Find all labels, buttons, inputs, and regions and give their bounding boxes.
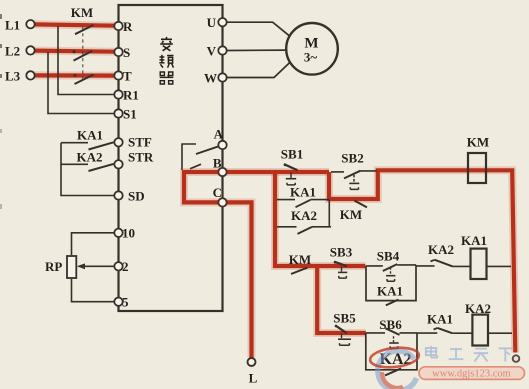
svg-text:KA1: KA1 bbox=[77, 128, 103, 143]
terminal S1 bbox=[114, 107, 136, 122]
wiper arrow RP to 2 bbox=[77, 263, 115, 269]
svg-text:SB2: SB2 bbox=[341, 151, 363, 166]
relay contact KA2 (row1 parallel) bbox=[277, 208, 331, 234]
svg-text:A: A bbox=[214, 127, 224, 142]
wire KA2 coil to right rail bbox=[488, 332, 512, 334]
relay contact KA2 (NC interlock row2) bbox=[416, 242, 471, 266]
pushbutton SB6 (NO) with latch box bbox=[366, 317, 417, 370]
svg-text:KM: KM bbox=[340, 207, 362, 222]
svg-text:L2: L2 bbox=[5, 44, 20, 59]
wire branch right rail (black) bbox=[328, 200, 330, 227]
contactor contact KM (self latch row1) bbox=[340, 201, 367, 222]
relay contact KA2 to STR bbox=[61, 150, 114, 172]
svg-text:SB3: SB3 bbox=[330, 245, 353, 260]
svg-text:10: 10 bbox=[122, 226, 135, 241]
terminal 2 bbox=[114, 259, 128, 274]
terminal L2 bbox=[5, 44, 35, 59]
svg-text:KM: KM bbox=[71, 5, 93, 20]
pushbutton SB5 (NC) bbox=[333, 311, 356, 346]
terminal 5 bbox=[114, 295, 129, 310]
terminal SD bbox=[114, 189, 144, 204]
svg-text:KA1: KA1 bbox=[290, 184, 316, 199]
pushbutton SB3 (NC) bbox=[330, 245, 353, 279]
coil KA1 bbox=[461, 233, 487, 279]
svg-text:T: T bbox=[123, 69, 132, 84]
wire L3 to T (red) bbox=[34, 71, 115, 79]
terminal L bbox=[248, 358, 258, 386]
svg-text:www.dgjs123.com: www.dgjs123.com bbox=[432, 369, 511, 380]
terminal right rail end (red) bbox=[513, 355, 520, 362]
terminal S bbox=[114, 45, 130, 60]
wire S1 tap from S phase bbox=[48, 52, 115, 114]
svg-text:KM: KM bbox=[467, 135, 489, 150]
svg-text:2: 2 bbox=[122, 259, 129, 274]
wire RP bottom to 5 bbox=[72, 279, 115, 302]
relay contact KA2 (latch under SB6) bbox=[380, 351, 412, 375]
svg-text:L1: L1 bbox=[5, 18, 20, 33]
motor M 3~ bbox=[286, 23, 338, 75]
wire B jog to C and down to L (red) bbox=[184, 172, 329, 358]
terminal W bbox=[204, 71, 227, 86]
svg-text:U: U bbox=[207, 15, 217, 30]
wire KA1 coil to right rail bbox=[487, 265, 512, 267]
terminal 10 bbox=[114, 226, 135, 241]
svg-text:KA2: KA2 bbox=[291, 208, 317, 223]
relay contact KA1 (row1 parallel) bbox=[277, 184, 329, 207]
svg-text:SB1: SB1 bbox=[281, 147, 303, 162]
svg-text:C: C bbox=[213, 185, 222, 200]
terminal STR bbox=[114, 150, 154, 169]
terminal T bbox=[114, 69, 132, 84]
svg-text:W: W bbox=[204, 71, 217, 86]
svg-text:3~: 3~ bbox=[304, 50, 318, 65]
watermark logo swoosh bbox=[378, 351, 417, 389]
svg-text:STR: STR bbox=[128, 150, 154, 165]
terminal L1 bbox=[5, 18, 35, 33]
contactor KM main contacts bbox=[71, 5, 94, 84]
terminal STF bbox=[114, 135, 152, 150]
contactor contact KM (row2 series) bbox=[289, 252, 311, 274]
svg-text:V: V bbox=[207, 44, 217, 59]
svg-text:B: B bbox=[213, 156, 222, 171]
coil KA2 bbox=[465, 301, 491, 346]
terminal L3 bbox=[5, 69, 35, 84]
terminal R1 bbox=[114, 88, 139, 103]
svg-text:SB5: SB5 bbox=[333, 311, 356, 326]
svg-text:KA1: KA1 bbox=[377, 284, 403, 299]
svg-text:S: S bbox=[123, 45, 130, 60]
wire L1 to R (red) bbox=[34, 24, 115, 25]
scan edge artifacts bbox=[0, 14, 2, 209]
wire L2 to S (red) bbox=[34, 51, 115, 52]
terminal R bbox=[114, 19, 133, 34]
potentiometer RP bbox=[45, 256, 76, 278]
pushbutton SB1 (NC stop) bbox=[281, 147, 303, 186]
svg-text:5: 5 bbox=[122, 295, 129, 310]
wire W to motor bbox=[227, 63, 290, 78]
wire SB2 bypass and KM coil line to right rail (red) bbox=[329, 170, 515, 352]
svg-text:STF: STF bbox=[128, 135, 152, 150]
relay contact KA1 (NC interlock row3) bbox=[417, 312, 472, 334]
terminal C bbox=[213, 185, 227, 207]
svg-text:S1: S1 bbox=[123, 107, 137, 122]
wire R1 tap from R phase bbox=[58, 26, 115, 95]
svg-text:KA1: KA1 bbox=[461, 233, 487, 248]
terminal U bbox=[207, 15, 227, 30]
terminal V bbox=[207, 44, 227, 59]
svg-text:RP: RP bbox=[45, 259, 62, 274]
relay contact KA1 (latch under SB4) bbox=[377, 284, 403, 306]
wire 10 to RP top bbox=[72, 233, 116, 255]
svg-text:KA2: KA2 bbox=[77, 150, 103, 165]
wire common to SD bbox=[61, 143, 115, 196]
svg-text:R: R bbox=[123, 19, 133, 34]
wire U to motor bbox=[227, 22, 290, 36]
coil KM bbox=[467, 135, 489, 184]
svg-text:SD: SD bbox=[128, 189, 145, 204]
svg-text:SB4: SB4 bbox=[377, 249, 400, 264]
watermark text 电工天下 bbox=[426, 346, 514, 362]
svg-text:R1: R1 bbox=[123, 88, 139, 103]
watermark oval around KA2 bbox=[369, 345, 420, 369]
svg-text:L3: L3 bbox=[5, 69, 21, 84]
pushbutton SB4 (NO) with latch box bbox=[366, 249, 416, 301]
inverter box U1 变频器 bbox=[119, 5, 223, 311]
wire V to motor bbox=[227, 49, 286, 51]
svg-text:L: L bbox=[249, 371, 258, 386]
svg-text:KA1: KA1 bbox=[427, 312, 453, 327]
terminal B bbox=[213, 156, 227, 177]
svg-text:KA2: KA2 bbox=[428, 242, 454, 257]
wire left branch rail and rows 2-3 (red) bbox=[275, 170, 366, 333]
svg-text:KM: KM bbox=[289, 252, 311, 267]
terminal A bbox=[214, 127, 227, 150]
watermark pill www.dgjs123.com bbox=[419, 367, 525, 380]
pushbutton SB2 (NO start) bbox=[331, 151, 377, 190]
relay contact KA1 to STF bbox=[61, 128, 114, 150]
fault relay contact A-B bbox=[182, 144, 219, 170]
